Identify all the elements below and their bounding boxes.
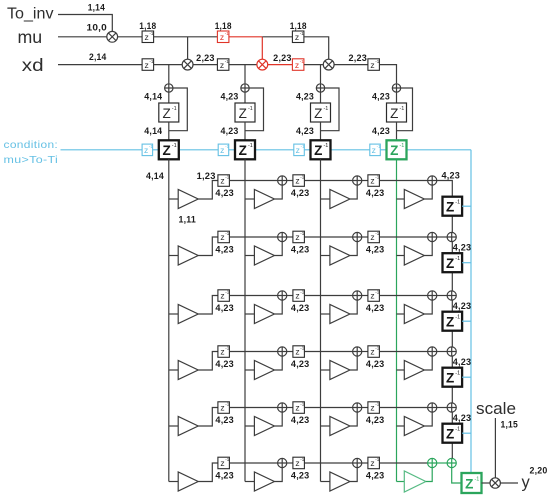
wire a33 to delay d33	[362, 295, 368, 297]
wire d33 to adder a34	[380, 295, 428, 297]
svg-text:1,18: 1,18	[215, 21, 232, 31]
svg-text:4,14: 4,14	[144, 126, 162, 136]
wire bus tap to amplifier T31	[169, 313, 178, 315]
amplifier T23	[330, 246, 350, 265]
delay D5 z^-1 on xd line	[217, 59, 229, 71]
wire T54 output to adder a54	[424, 412, 432, 426]
delay d11 row 1	[218, 175, 230, 187]
svg-text:Z: Z	[239, 143, 247, 158]
wire condition enable line	[407, 149, 472, 151]
wire register P2 down to adder b3	[451, 272, 453, 291]
svg-text:-1: -1	[375, 290, 379, 295]
wire tap node to adder A2	[244, 65, 246, 84]
svg-text:z: z	[144, 60, 148, 70]
svg-text:z: z	[144, 32, 148, 42]
svg-text:z: z	[295, 60, 299, 70]
amplifier T62	[254, 472, 274, 491]
wire D5 to multiplier M3 with tap node n4	[229, 64, 257, 66]
amplifier T33	[330, 305, 350, 324]
wire adder b2 to register P2	[451, 242, 453, 254]
svg-text:-1: -1	[300, 290, 304, 295]
wire bus tap to amplifier T63	[321, 481, 330, 483]
wire M1 to delay D1	[118, 36, 143, 38]
wire T21 output to delay d21	[198, 237, 218, 256]
svg-text:z: z	[220, 403, 224, 413]
wire T42 output to adder a42	[274, 356, 282, 370]
svg-text:4,23: 4,23	[221, 126, 239, 136]
wire Z4 to condition register R4	[396, 122, 398, 140]
svg-text:-1: -1	[225, 144, 229, 149]
svg-text:4,23: 4,23	[372, 91, 390, 101]
amplifier T44	[404, 361, 424, 380]
svg-text:-1: -1	[300, 402, 304, 407]
delay d52 row 5	[293, 402, 305, 414]
svg-text:-1: -1	[225, 290, 229, 295]
adder b5 pipeline sum	[447, 403, 456, 412]
wire red D2 to node n2	[229, 36, 262, 38]
wire T31 output to delay d31	[198, 296, 218, 315]
svg-text:-1: -1	[248, 143, 253, 149]
adder a54	[428, 403, 437, 412]
adder a53	[353, 403, 362, 412]
svg-text:z: z	[370, 458, 374, 468]
delay d23 row 2	[368, 231, 380, 243]
svg-text:Z: Z	[446, 427, 454, 442]
wire a53 to delay d53	[362, 407, 368, 409]
svg-text:2,23: 2,23	[273, 53, 292, 63]
svg-text:-1: -1	[225, 31, 229, 36]
svg-text:4,23: 4,23	[291, 415, 310, 425]
svg-text:-1: -1	[300, 175, 304, 180]
delay D7 z^-1 on xd line	[368, 59, 380, 71]
multiplier M5 output scaling	[490, 478, 500, 488]
adder a43	[353, 347, 362, 356]
wire bus tap to amplifier T14	[397, 198, 405, 200]
svg-text:-1: -1	[225, 402, 229, 407]
wire node n2 to delay D3	[262, 36, 293, 38]
wire condition enable line	[153, 149, 159, 151]
svg-text:z: z	[144, 145, 148, 155]
svg-text:z: z	[370, 347, 374, 357]
svg-text:To_inv: To_inv	[7, 6, 54, 23]
wire a22 to delay d22	[287, 236, 293, 238]
wire T34 output to adder a34	[424, 300, 432, 314]
wire T12 output to adder a12	[274, 185, 282, 199]
wire a23 to delay d23	[362, 236, 368, 238]
svg-text:z: z	[370, 291, 374, 301]
svg-text:4,23: 4,23	[372, 126, 390, 136]
amplifier T34	[404, 305, 424, 324]
svg-text:-1: -1	[375, 346, 379, 351]
register R2 conditioned z^-1	[235, 140, 255, 159]
svg-text:4,23: 4,23	[291, 359, 310, 369]
wire condition enable line	[304, 149, 310, 151]
svg-text:z: z	[295, 32, 299, 42]
wire condition stub to register P5	[462, 432, 471, 434]
svg-text:2,23: 2,23	[196, 53, 215, 63]
wire adder b4 to register P4	[451, 356, 453, 368]
svg-text:-1: -1	[300, 457, 304, 462]
svg-text:z: z	[220, 176, 224, 186]
wire Z2 to condition register R2	[244, 122, 246, 140]
svg-text:-1: -1	[172, 106, 177, 112]
wire To_inv to multiplier M1	[58, 15, 112, 32]
adder a12	[278, 176, 287, 185]
amplifier T42	[254, 361, 274, 380]
wire T44 output to adder a44	[424, 356, 432, 370]
svg-text:-1: -1	[455, 256, 460, 262]
svg-text:Z: Z	[465, 476, 473, 491]
amplifier T52	[254, 417, 274, 436]
delay d21 row 2	[218, 231, 230, 243]
wire bus tap to amplifier T32	[245, 313, 254, 315]
svg-text:z: z	[370, 403, 374, 413]
wire adder b5 to register P5	[451, 412, 453, 424]
amplifier T14	[404, 190, 424, 209]
amplifier T64	[404, 471, 426, 492]
wire d61 to adder a62	[230, 462, 278, 464]
wire d11 to adder a12	[230, 180, 278, 182]
register P6 output z^-1 (green)	[462, 473, 482, 493]
svg-text:-1: -1	[248, 106, 253, 112]
wire register P3 down to adder b4	[451, 331, 453, 347]
svg-text:z: z	[220, 32, 224, 42]
adder A1 accumulator col1	[165, 84, 173, 92]
svg-text:Z: Z	[446, 371, 454, 386]
svg-text:z: z	[295, 458, 299, 468]
delay d62 row 6	[293, 457, 305, 469]
svg-text:4,23: 4,23	[453, 413, 472, 423]
wire T23 output to adder a23	[350, 242, 357, 256]
wire T43 output to adder a43	[350, 356, 357, 370]
svg-text:4,23: 4,23	[366, 471, 385, 481]
wire condition enable line	[179, 149, 218, 151]
svg-text:Z: Z	[446, 256, 454, 271]
register P5 z^-1 pipeline	[443, 424, 463, 443]
adder a22	[278, 232, 287, 241]
wire condition line down right side	[470, 150, 472, 473]
wire bus tap to amplifier T52	[245, 425, 254, 427]
svg-text:4,23: 4,23	[221, 91, 239, 101]
wire d13 to adder a14	[380, 180, 428, 182]
amplifier T53	[330, 417, 350, 436]
svg-text:mu>To-Ti: mu>To-Ti	[4, 154, 59, 166]
wire register P1 down to adder b2	[451, 216, 453, 233]
wire T14 output to adder a14	[424, 185, 432, 199]
svg-text:-1: -1	[375, 175, 379, 180]
multiplier M3 red	[257, 59, 268, 70]
svg-text:-1: -1	[172, 143, 177, 149]
svg-text:z: z	[220, 291, 224, 301]
svg-text:z: z	[220, 232, 224, 242]
amplifier T21	[178, 246, 198, 265]
delay d13 row 1	[368, 175, 380, 187]
svg-text:z: z	[295, 403, 299, 413]
wire T13 output to adder a13	[350, 185, 357, 199]
svg-text:Z: Z	[162, 106, 170, 121]
wire register P5 down to adder b6	[451, 443, 453, 459]
wire condition enable line	[229, 149, 235, 151]
wire D6 to multiplier M4 with tap node n5	[304, 64, 323, 66]
adder a63	[353, 458, 362, 467]
wire bus tap to amplifier T44	[397, 369, 405, 371]
wire a32 to delay d32	[287, 295, 293, 297]
svg-text:1,14: 1,14	[88, 3, 105, 13]
amplifier T41	[178, 361, 198, 380]
delay d12 row 1	[293, 175, 305, 187]
svg-text:-1: -1	[455, 371, 460, 377]
svg-text:z: z	[372, 145, 376, 155]
svg-text:2,14: 2,14	[89, 52, 107, 62]
wire condition stub to register P2	[462, 262, 471, 264]
delay d43 row 4	[368, 346, 380, 358]
svg-text:Z: Z	[446, 200, 454, 215]
amplifier T61	[178, 472, 198, 491]
enable gate e4 condition row	[370, 144, 381, 156]
amplifier T54	[404, 417, 424, 436]
svg-text:Z: Z	[390, 143, 398, 158]
delay D2 z^-1 red on mu line	[217, 31, 229, 43]
svg-text:-1: -1	[300, 59, 304, 64]
wire tap node to adder A1	[168, 65, 170, 84]
wire bus tap to amplifier T64	[397, 481, 405, 483]
enable gate e2 condition row	[218, 144, 229, 156]
svg-text:1,23: 1,23	[197, 171, 216, 181]
wire a44 to adder b4	[437, 351, 447, 353]
svg-text:-1: -1	[375, 59, 379, 64]
wire condition enable line	[331, 149, 370, 151]
wire T11 output to delay d11	[198, 181, 218, 200]
svg-text:4,23: 4,23	[296, 126, 314, 136]
delay Z4 z^-1 accumulator col4	[387, 103, 407, 122]
wire column bus 1	[168, 159, 170, 481]
svg-text:-1: -1	[455, 427, 460, 433]
svg-text:-1: -1	[375, 402, 379, 407]
wire a34 to adder b3	[437, 295, 447, 297]
wire A2 to delay Z2	[244, 92, 246, 103]
svg-text:4,23: 4,23	[291, 188, 310, 198]
wire d42 to adder a43	[305, 351, 353, 353]
svg-text:4,23: 4,23	[296, 91, 314, 101]
svg-text:4,14: 4,14	[146, 171, 164, 181]
amplifier T51	[178, 417, 198, 436]
adder a13	[353, 176, 362, 185]
svg-text:-1: -1	[301, 144, 305, 149]
svg-text:4,23: 4,23	[366, 188, 385, 198]
delay D3 z^-1 on mu line	[292, 31, 304, 43]
wire a63 to delay d63	[362, 462, 368, 464]
svg-text:y: y	[522, 474, 531, 492]
adder a42	[278, 347, 287, 356]
wire T53 output to adder a53	[350, 412, 357, 426]
wire scale to multiplier M5	[494, 418, 496, 478]
wire T63 output to adder a63	[350, 468, 357, 482]
adder a44	[428, 347, 437, 356]
svg-text:Z: Z	[239, 106, 247, 121]
register R4 conditioned z^-1 (green)	[387, 140, 407, 159]
svg-text:-1: -1	[225, 175, 229, 180]
svg-text:4,23: 4,23	[453, 357, 472, 367]
adder A3 accumulator col3	[316, 84, 324, 92]
amplifier T13	[330, 190, 350, 209]
wire A3 to delay Z3	[320, 92, 322, 103]
wire bus tap to amplifier T51	[169, 425, 178, 427]
wire feedback loop Z1 to A1	[169, 88, 188, 131]
adder a34	[428, 291, 437, 300]
amplifier T43	[330, 361, 350, 380]
amplifier T31	[178, 305, 198, 324]
svg-text:condition:: condition:	[4, 139, 59, 151]
wire xd input	[58, 64, 142, 66]
svg-text:-1: -1	[455, 315, 460, 321]
wire d62 to adder a63	[305, 462, 353, 464]
svg-text:4,14: 4,14	[144, 91, 162, 101]
wire a12 to delay d12	[287, 180, 293, 182]
svg-text:4,23: 4,23	[215, 359, 234, 369]
wire condition enable line	[61, 149, 143, 151]
wire bus tap to amplifier T62	[245, 481, 254, 483]
wire condition stub to register P4	[462, 376, 471, 378]
svg-text:-1: -1	[399, 106, 404, 112]
wire bus tap to amplifier T11	[169, 198, 178, 200]
svg-text:z: z	[220, 60, 224, 70]
wire tap node to adder A3	[320, 65, 322, 84]
svg-text:4,23: 4,23	[442, 171, 461, 181]
wire T51 output to delay d51	[198, 408, 218, 427]
amplifier T12	[254, 190, 274, 209]
wire T41 output to delay d41	[198, 352, 218, 371]
svg-text:-1: -1	[149, 144, 153, 149]
wire a54 to adder b5	[437, 407, 447, 409]
svg-text:-1: -1	[225, 346, 229, 351]
svg-text:2,23: 2,23	[349, 53, 368, 63]
wire adder b3 to register P3	[451, 300, 453, 312]
wire feedback loop Z3 to A3	[321, 88, 340, 131]
svg-text:z: z	[370, 176, 374, 186]
adder b4 pipeline sum	[447, 347, 456, 356]
adder A2 accumulator col2	[241, 84, 249, 92]
wire red M3 to delay D6	[268, 64, 293, 66]
adder b6 pipeline sum	[447, 458, 456, 467]
wire M4 to delay D7	[334, 64, 368, 66]
svg-text:4,23: 4,23	[366, 415, 385, 425]
wire a13 to delay d13	[362, 180, 368, 182]
wire bus tap to amplifier T22	[245, 255, 254, 257]
delay Z3 z^-1 accumulator col3	[311, 103, 331, 122]
svg-text:-1: -1	[375, 231, 379, 236]
delay Z2 z^-1 accumulator col2	[235, 103, 255, 122]
svg-text:4,23: 4,23	[215, 245, 234, 255]
delay d53 row 5	[368, 402, 380, 414]
wire T33 output to adder a33	[350, 300, 357, 314]
wire D7 to accumulator column 4	[380, 65, 397, 84]
wire T62 output to adder a62	[274, 468, 282, 482]
wire Z3 to condition register R3	[320, 122, 322, 140]
wire bus tap to amplifier T41	[169, 369, 178, 371]
wire D1 to delay D2 with tap at node n1	[154, 36, 218, 38]
wire bus tap to amplifier T43	[321, 369, 330, 371]
adder b3 pipeline sum	[447, 291, 456, 300]
multiplier M1 (mu x To_inv)	[107, 31, 118, 42]
wire condition enable line	[380, 149, 386, 151]
svg-text:-1: -1	[225, 59, 229, 64]
svg-text:Z: Z	[162, 143, 170, 158]
wire bus tap to amplifier T61	[169, 481, 178, 483]
wire M2 to delay D5	[193, 64, 218, 66]
wire mu input	[58, 36, 107, 38]
wire A4 to delay Z4	[396, 92, 398, 103]
svg-text:scale: scale	[476, 399, 516, 418]
svg-text:-1: -1	[323, 106, 328, 112]
delay D1 z^-1 on mu line	[142, 31, 154, 43]
adder a52	[278, 403, 287, 412]
adder a62	[278, 458, 287, 467]
svg-text:-1: -1	[377, 144, 381, 149]
delay d31 row 3	[218, 290, 230, 302]
wire red node n2 down to multiplier M3	[261, 37, 263, 59]
svg-text:1,15: 1,15	[501, 419, 519, 429]
svg-text:z: z	[295, 232, 299, 242]
wire d31 to adder a32	[230, 295, 278, 297]
svg-text:Z: Z	[314, 143, 322, 158]
svg-text:Z: Z	[446, 315, 454, 330]
wire P6 to output multiplier M5	[482, 482, 490, 484]
wire A1 to delay Z1	[168, 92, 170, 103]
wire d43 to adder a44	[380, 351, 428, 353]
wire Z1 to condition register R1	[168, 122, 170, 140]
svg-text:4,23: 4,23	[215, 471, 234, 481]
enable gate e1 condition row	[142, 144, 153, 156]
delay d33 row 3	[368, 290, 380, 302]
wire bus tap to amplifier T13	[321, 198, 330, 200]
svg-text:-1: -1	[399, 143, 404, 149]
wire condition stub to register P1	[462, 205, 471, 207]
svg-text:4,23: 4,23	[291, 471, 310, 481]
svg-text:-1: -1	[300, 231, 304, 236]
svg-text:4,23: 4,23	[366, 245, 385, 255]
delay D6 z^-1 red on xd line	[292, 59, 304, 71]
amplifier T63	[330, 472, 350, 491]
svg-text:4,23: 4,23	[215, 303, 234, 313]
svg-text:xd: xd	[22, 55, 44, 75]
delay d22 row 2	[293, 231, 305, 243]
svg-text:-1: -1	[474, 476, 479, 482]
wire a24 to adder b2	[437, 236, 447, 238]
adder a23	[353, 232, 362, 241]
svg-text:1,11: 1,11	[179, 215, 197, 225]
wire D4 to multiplier M2 with tap node n3	[154, 64, 183, 66]
multiplier M4	[323, 59, 334, 70]
wire d12 to adder a13	[305, 180, 353, 182]
wire register P4 down to adder b5	[451, 387, 453, 403]
svg-text:-1: -1	[149, 31, 153, 36]
svg-text:-1: -1	[375, 457, 379, 462]
wire bus tap to amplifier T54	[397, 425, 405, 427]
adder a33	[353, 291, 362, 300]
delay d63 row 6	[368, 457, 380, 469]
svg-text:1,18: 1,18	[290, 21, 307, 31]
adder A4 accumulator col4	[392, 84, 400, 92]
svg-text:4,23: 4,23	[366, 359, 385, 369]
delay d41 row 4	[218, 346, 230, 358]
delay d42 row 4	[293, 346, 305, 358]
wire a43 to delay d43	[362, 351, 368, 353]
wire d51 to adder a52	[230, 407, 278, 409]
svg-text:-1: -1	[323, 143, 328, 149]
wire d53 to adder a54	[380, 407, 428, 409]
svg-text:-1: -1	[300, 31, 304, 36]
svg-text:4,23: 4,23	[453, 301, 472, 311]
